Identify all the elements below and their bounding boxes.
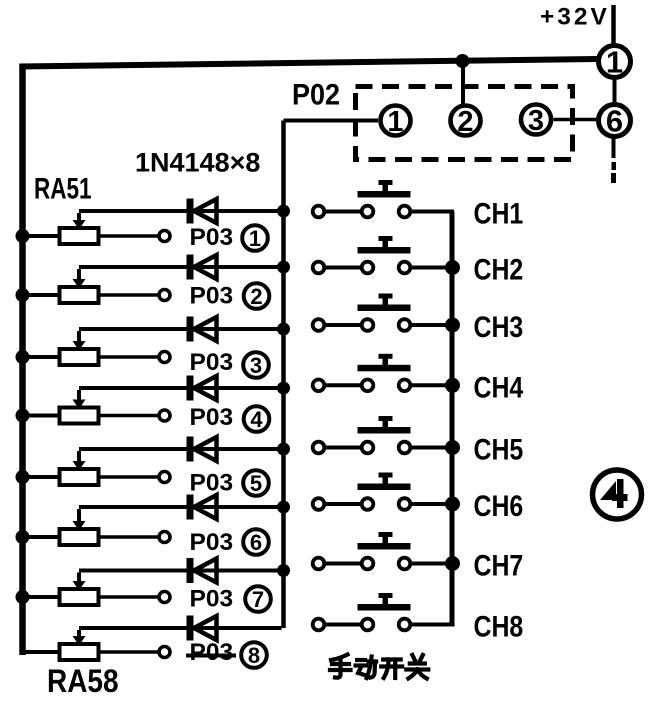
wire row 1: wiper to diode bus bbox=[79, 209, 282, 213]
junction dot left bus row 4 bbox=[16, 409, 30, 423]
terminal P03 pin 4 (open circle) bbox=[159, 410, 170, 421]
pushbutton SW8 bbox=[358, 593, 411, 630]
wire +32V to terminal 1 bbox=[611, 5, 616, 44]
svg-text:CH3: CH3 bbox=[474, 310, 524, 344]
diode D4 (1N4148) bbox=[187, 376, 217, 401]
wire SW4 terminal to contact bbox=[326, 383, 361, 387]
wire terminal 1 to terminal 6 bbox=[613, 79, 617, 103]
diode D3 (1N4148) bbox=[187, 317, 217, 342]
potentiometer row 5 bbox=[23, 451, 158, 485]
wire SW7 terminal to contact bbox=[326, 562, 361, 566]
wire below terminal 6 bbox=[611, 138, 616, 183]
potentiometer row 4 bbox=[23, 390, 158, 424]
wire SW2 to CH bus bbox=[412, 266, 455, 270]
junction dot CH bus row 5 bbox=[445, 440, 460, 455]
svg-text:2: 2 bbox=[250, 284, 262, 309]
switch SW3 left terminal bbox=[313, 319, 325, 331]
svg-text:RA51: RA51 bbox=[34, 172, 92, 206]
manual switch caption (shou dong kai guan) bbox=[330, 655, 428, 679]
switch SW1 left terminal bbox=[313, 206, 325, 218]
wire SW5 to CH bus bbox=[412, 446, 455, 450]
wire junction to P02 pin 2 bbox=[461, 61, 465, 104]
junction dot diode bus row 2 bbox=[277, 261, 290, 274]
P02 pin 2 bbox=[451, 106, 481, 138]
switch SW4 left terminal bbox=[313, 380, 325, 392]
wire row 8: wiper to diode bus bbox=[79, 626, 282, 630]
junction dot left bus row 7 bbox=[16, 590, 30, 604]
junction dot diode bus row 4 bbox=[277, 382, 290, 395]
pushbutton SW2 bbox=[358, 236, 411, 273]
junction dot left bus row 2 bbox=[16, 288, 30, 302]
switch SW7 left terminal bbox=[313, 558, 325, 570]
terminal P03 pin 1 (open circle) bbox=[159, 231, 170, 242]
P02 pin 1 bbox=[381, 106, 411, 138]
switch SW8 left terminal bbox=[313, 619, 325, 631]
junction dot left bus row 3 bbox=[16, 350, 30, 364]
wire SW7 to CH bus bbox=[412, 562, 455, 566]
svg-text:CH6: CH6 bbox=[474, 489, 524, 523]
junction dot CH bus row 3 bbox=[445, 318, 460, 333]
wire SW3 terminal to contact bbox=[326, 323, 361, 327]
potentiometer row 2 bbox=[23, 269, 158, 303]
wire SW8 to CH bus bbox=[412, 623, 455, 627]
svg-text:P03: P03 bbox=[190, 529, 234, 556]
svg-text:RA58: RA58 bbox=[47, 664, 119, 699]
junction dot CH bus row 2 bbox=[445, 260, 460, 275]
wire SW5 terminal to contact bbox=[326, 446, 361, 450]
P03 pin number 8 bbox=[241, 642, 267, 668]
junction dot CH bus row 6 bbox=[445, 497, 460, 512]
diode D1 (1N4148) bbox=[187, 199, 217, 224]
diode D2 (1N4148) bbox=[187, 255, 217, 280]
potentiometer row 1 bbox=[23, 213, 158, 244]
P03 pin number 7 bbox=[245, 586, 271, 612]
P03 pin number 2 bbox=[244, 283, 270, 309]
sheet number circled 4 bbox=[593, 470, 642, 519]
junction dot on top bus bbox=[456, 54, 470, 68]
svg-text:1: 1 bbox=[249, 226, 261, 251]
svg-text:CH5: CH5 bbox=[474, 432, 524, 466]
diode D8 (1N4148) bbox=[187, 616, 217, 641]
switch SW6 left terminal bbox=[313, 498, 325, 510]
wire SW3 to CH bus bbox=[412, 323, 455, 327]
svg-text:6: 6 bbox=[606, 104, 623, 139]
svg-text:3: 3 bbox=[250, 353, 262, 378]
svg-text:P03: P03 bbox=[190, 469, 234, 496]
potentiometer row 6 bbox=[23, 509, 158, 545]
CH bus vertical wire bbox=[450, 212, 455, 627]
pushbutton SW7 bbox=[358, 532, 411, 569]
terminal P03 pin 6 (open circle) bbox=[159, 532, 170, 543]
junction dot diode bus row 1 bbox=[277, 205, 290, 218]
wire row 6: wiper to diode bus bbox=[79, 505, 282, 509]
P03 label row 8 bbox=[186, 639, 236, 666]
P03 pin number 4 bbox=[244, 406, 270, 432]
svg-text:1N4148×8: 1N4148×8 bbox=[135, 148, 260, 178]
junction dot left bus row 1 bbox=[16, 229, 30, 243]
diode D5 (1N4148) bbox=[187, 437, 217, 462]
terminal circle 6 bbox=[599, 104, 631, 139]
P03 pin number 5 bbox=[243, 470, 269, 496]
svg-text:P03: P03 bbox=[190, 282, 234, 309]
svg-text:1: 1 bbox=[606, 45, 623, 80]
switch SW2 left terminal bbox=[313, 262, 325, 274]
wire SW2 terminal to contact bbox=[326, 266, 361, 270]
junction dot diode bus row 3 bbox=[277, 323, 290, 336]
wire row 2: wiper to diode bus bbox=[79, 265, 282, 269]
P03 pin number 1 bbox=[242, 225, 268, 251]
svg-text:4: 4 bbox=[250, 407, 263, 432]
P03 pin number 6 bbox=[243, 529, 269, 555]
potentiometer row 7 bbox=[23, 573, 158, 606]
wire SW1 to CH bus bbox=[412, 210, 455, 214]
diode bus vertical wire bbox=[281, 121, 286, 629]
pushbutton SW4 bbox=[358, 354, 411, 391]
junction dot diode bus row 7 bbox=[277, 564, 290, 577]
junction dot CH bus row 7 bbox=[445, 556, 460, 571]
svg-text:CH7: CH7 bbox=[474, 548, 524, 582]
terminal circle 1 (+32V) bbox=[599, 45, 631, 80]
junction dot diode bus row 5 bbox=[277, 443, 290, 456]
junction dot CH bus row 4 bbox=[445, 378, 460, 393]
terminal P03 pin 5 (open circle) bbox=[159, 472, 170, 483]
svg-text:P03: P03 bbox=[190, 404, 234, 431]
terminal P03 pin 2 (open circle) bbox=[159, 290, 170, 301]
terminal P03 pin 3 (open circle) bbox=[159, 352, 170, 363]
svg-text:P03: P03 bbox=[190, 224, 234, 251]
svg-text:CH2: CH2 bbox=[474, 252, 524, 286]
wire SW4 to CH bus bbox=[412, 383, 455, 387]
wire SW8 terminal to contact bbox=[326, 623, 361, 627]
wire row 4: wiper to diode bus bbox=[79, 386, 282, 390]
wire row 3: wiper to diode bus bbox=[79, 327, 282, 331]
P02 pin 3 bbox=[521, 105, 551, 137]
P03 pin number 3 bbox=[243, 352, 269, 378]
wire SW6 to CH bus bbox=[412, 502, 455, 506]
junction dot left bus row 5 bbox=[16, 470, 30, 484]
svg-text:P03: P03 bbox=[190, 639, 234, 666]
top bus wire (+32V rail) bbox=[20, 59, 598, 67]
potentiometer row 3 bbox=[23, 331, 158, 365]
svg-text:2: 2 bbox=[457, 106, 473, 138]
svg-text:CH4: CH4 bbox=[474, 370, 524, 404]
wire P02 pin 3 to terminal 6 bbox=[554, 118, 598, 122]
wire row 5: wiper to diode bus bbox=[79, 447, 282, 451]
pushbutton SW1 bbox=[358, 180, 411, 217]
pushbutton SW3 bbox=[358, 294, 411, 331]
switch SW5 left terminal bbox=[313, 442, 325, 454]
pushbutton SW5 bbox=[358, 416, 411, 453]
svg-text:P03: P03 bbox=[190, 585, 234, 612]
junction dot left bus row 6 bbox=[16, 530, 30, 544]
wire SW6 terminal to contact bbox=[326, 502, 361, 506]
svg-text:5: 5 bbox=[250, 471, 262, 496]
svg-text:CH8: CH8 bbox=[474, 609, 524, 643]
left bus wire bbox=[19, 64, 26, 656]
connector P02 dashed outline bbox=[356, 87, 573, 160]
diode D7 (1N4148) bbox=[187, 558, 217, 583]
pushbutton SW6 bbox=[358, 473, 411, 510]
wire SW1 terminal to contact bbox=[326, 210, 361, 214]
potentiometer row 8 bbox=[23, 630, 158, 660]
svg-text:3: 3 bbox=[528, 105, 544, 137]
wire row 7: wiper to diode bus bbox=[79, 569, 282, 573]
svg-text:+32V: +32V bbox=[540, 3, 610, 30]
svg-text:1: 1 bbox=[387, 106, 403, 138]
svg-text:CH1: CH1 bbox=[474, 196, 524, 230]
svg-text:8: 8 bbox=[248, 643, 260, 668]
svg-text:P03: P03 bbox=[190, 349, 234, 376]
svg-text:7: 7 bbox=[252, 587, 264, 612]
terminal P03 pin 8 (open circle) bbox=[159, 647, 170, 658]
svg-text:P02: P02 bbox=[292, 78, 340, 112]
diode D6 (1N4148) bbox=[187, 495, 217, 520]
wire P02 pin 1 to diode bus bbox=[284, 119, 379, 123]
terminal P03 pin 7 (open circle) bbox=[159, 592, 170, 603]
svg-text:6: 6 bbox=[250, 530, 262, 555]
junction dot diode bus row 6 bbox=[277, 501, 290, 514]
